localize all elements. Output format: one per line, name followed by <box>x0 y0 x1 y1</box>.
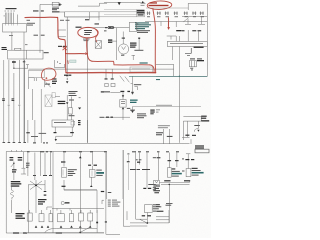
label text under red wire <box>27 20 36 26</box>
connector dash <box>185 135 189 136</box>
connector row symbol 3 <box>165 12 169 16</box>
red curl around fuse link <box>150 65 154 73</box>
teal text block <box>130 100 138 104</box>
wire down from AC box <box>187 121 189 137</box>
arrow under red junction <box>66 74 68 76</box>
S206 dash <box>101 191 104 192</box>
needle sweep curve <box>45 228 60 232</box>
relay2 labels <box>172 168 182 176</box>
fuse box component <box>190 61 197 67</box>
bottom bus line 1 <box>59 228 97 230</box>
battery plates <box>153 186 160 193</box>
dashes under <box>44 191 47 196</box>
wire rows mid-bottom verticals <box>27 153 29 177</box>
wire vertical midright b <box>168 129 170 144</box>
wire right in cluster <box>21 152 26 174</box>
mid bottom wires right of cluster <box>63 153 65 167</box>
bold segment on bus <box>56 232 62 234</box>
switch wire w diagonal <box>11 162 14 170</box>
main vertical wire center <box>116 28 118 60</box>
starter motor body <box>45 95 52 107</box>
EEC inline connector box <box>167 41 207 46</box>
connector dashes x92 <box>88 165 97 166</box>
wire coil T <box>132 38 140 60</box>
label R wire <box>18 105 21 106</box>
bottom bus line 2 <box>26 232 104 234</box>
wire top step <box>78 3 107 6</box>
label under relay circle <box>45 84 50 85</box>
lamp module wide box <box>52 120 74 127</box>
arrow head wire down <box>131 90 134 94</box>
label W wire <box>11 98 14 101</box>
wire 176.9 <box>176 153 178 168</box>
wire horizontal to relay <box>14 67 28 69</box>
node on teal <box>179 76 180 77</box>
dark connector blob <box>150 110 154 115</box>
relay1 internal <box>62 170 64 176</box>
labels mid bottom row <box>33 175 52 176</box>
dark dashes left <box>106 117 113 118</box>
wire below EEC box a <box>172 47 174 61</box>
label S-circle <box>65 202 70 203</box>
wire x123 bottom corner <box>123 150 130 226</box>
junction diamond on bus <box>118 2 121 5</box>
label 30A fuse <box>33 10 44 11</box>
wire horizontal <box>110 91 120 93</box>
labels y169 row <box>130 169 150 170</box>
red arrowhead <box>85 52 88 55</box>
red branch arrow to relay <box>66 53 85 55</box>
label under red main line <box>0 0 1 1</box>
ignition switch column stack <box>69 91 78 101</box>
teal tag box <box>70 60 76 63</box>
relay block dark text <box>137 10 145 16</box>
wire short with arrow <box>131 107 134 113</box>
wire to fuse link top <box>40 3 62 5</box>
wire y190 <box>64 180 97 213</box>
relay box right bottom <box>195 149 209 153</box>
wire x67 vertical <box>66 17 68 74</box>
starter wire right <box>40 89 42 143</box>
label under arrow <box>64 75 71 76</box>
red down to coil line <box>65 54 67 73</box>
label wire end tags <box>3 142 27 143</box>
wire into distributor <box>112 40 116 42</box>
label splice text <box>134 84 142 85</box>
fuel pump relay box <box>89 170 95 178</box>
starter relay contact stub <box>36 78 38 81</box>
label right tag <box>101 91 104 92</box>
ground bus node <box>146 222 148 224</box>
module pin ticks <box>137 24 139 30</box>
ignition switch connector comb <box>5 13 17 24</box>
wire down from X <box>35 190 37 213</box>
instrument cluster big box <box>6 152 106 234</box>
EEC module label text <box>135 22 151 29</box>
relay component 2 <box>167 168 171 178</box>
left harness wire 1 <box>3 60 5 143</box>
wire 169 <box>168 153 170 168</box>
label box top <box>201 120 209 121</box>
starter relay feed wire <box>13 61 15 69</box>
wire down from switch area <box>176 36 179 41</box>
component box mid <box>120 100 126 108</box>
wire long vertical center-left <box>87 40 89 143</box>
label in box <box>121 101 125 104</box>
stub wire a <box>160 22 162 27</box>
label rows mid right <box>158 125 170 128</box>
left harness wire 2 <box>8 60 10 143</box>
bold marks <box>12 169 17 172</box>
wire right section vertical <box>173 69 175 76</box>
wire w arrow down <box>66 95 68 102</box>
label BK wire <box>2 98 5 101</box>
red curl right of TFI <box>96 30 98 43</box>
label connector C149 <box>2 47 8 50</box>
node junction <box>13 68 14 69</box>
module pin wire 1 <box>88 12 90 20</box>
wire horizontal upper <box>167 36 177 40</box>
wire horizontal mid right <box>133 106 202 108</box>
ignition module box <box>129 22 136 31</box>
splice stub S208 <box>131 76 133 90</box>
arrow end of bus <box>142 1 145 3</box>
connector row symbol 2 <box>157 12 161 16</box>
label inside connector box <box>170 42 203 45</box>
dark dashes on module wire <box>105 27 114 28</box>
EEC sub box top right <box>188 3 207 76</box>
starter wire mid <box>34 120 36 143</box>
gray box left <box>52 93 55 98</box>
connector row symbol 1 <box>147 12 151 16</box>
starter cable box bottom <box>145 205 153 213</box>
label S201 splice text <box>58 46 67 47</box>
wire into EEC a <box>187 30 189 41</box>
label connector C <box>108 39 112 43</box>
red highlight: drop at ignition feed <box>58 17 66 53</box>
wire into module <box>85 27 129 29</box>
switch diagonal <box>183 18 188 22</box>
bus wire horizontal <box>29 68 174 70</box>
label ignition switch text <box>4 8 17 16</box>
label x single <box>127 153 129 154</box>
label 3 rows <box>38 199 47 205</box>
bottom line segment <box>182 137 191 144</box>
marks in box <box>54 121 75 125</box>
faint labels right <box>156 105 172 113</box>
wire continue <box>13 173 15 180</box>
ignition sw stub wires under bus <box>106 69 112 78</box>
red wire from TFI down to bus <box>87 39 92 62</box>
connector marks <box>120 91 130 92</box>
small component on junction block <box>15 48 21 50</box>
label small left of center <box>79 96 81 99</box>
label row above EEC box <box>176 30 201 31</box>
label right of box <box>127 108 131 109</box>
AC demand box <box>183 117 201 138</box>
arrow below box <box>122 107 124 109</box>
center verticals bottom <box>105 153 107 200</box>
fp relay internal <box>91 171 93 177</box>
battery label <box>164 180 190 181</box>
inline connector dashes <box>190 58 202 59</box>
red ellipse around starter relay <box>41 68 56 80</box>
end of long horizontal <box>130 143 190 145</box>
gauge needle X junction <box>28 180 45 190</box>
teal mark <box>156 79 160 80</box>
S208 circle splice <box>61 201 68 204</box>
label text right of block <box>44 52 49 53</box>
arrows below boxes <box>35 226 92 228</box>
label TFI text inside circle <box>84 30 92 35</box>
dashes under cable box <box>142 215 151 216</box>
red arrowhead branch <box>167 27 170 30</box>
wire to module box <box>60 12 100 17</box>
junction block box <box>8 50 43 59</box>
label view A rows <box>52 78 57 84</box>
ground arrow symbol <box>78 108 81 110</box>
bus line under connectors <box>145 21 207 23</box>
splice bracket box <box>55 60 65 68</box>
red branch vertical short <box>167 18 169 29</box>
label distributor <box>121 55 124 56</box>
wire stub tick <box>26 65 29 69</box>
wire into EEC b <box>197 30 199 41</box>
label block left mid right <box>156 132 163 135</box>
label left <box>130 110 135 111</box>
EEC bottom border <box>156 75 207 77</box>
relay component 3 <box>186 169 191 177</box>
left harness wire 4 <box>19 60 21 143</box>
red vertical from EEC ellipse <box>153 9 156 73</box>
box corner right <box>102 200 104 204</box>
relay component 1 <box>62 168 67 178</box>
wire x105 bottom corner <box>106 153 120 235</box>
label text left of module <box>104 26 114 31</box>
wire below EEC box b <box>178 47 180 143</box>
EEC top border line <box>146 7 188 9</box>
red mark at relay <box>46 77 48 79</box>
bold dash pair near 147 <box>143 188 151 189</box>
diagonal into node <box>140 219 148 223</box>
top bus wire <box>104 1 145 3</box>
line under switch row <box>182 15 207 17</box>
label two-row bold mid <box>58 101 66 104</box>
small boxes under stubs <box>105 83 108 86</box>
labels row under cluster <box>26 163 30 168</box>
relay1 legend <box>68 169 77 176</box>
fusible link box <box>130 67 153 72</box>
distributor feed wire <box>122 32 124 44</box>
red scribble at splice <box>63 47 68 51</box>
teal bus wire <box>129 75 207 77</box>
label right of fuse <box>197 60 204 61</box>
capacitor symbol <box>185 48 192 55</box>
label under column box <box>69 115 75 116</box>
red main coil bus <box>66 72 156 74</box>
wire label row center <box>104 91 110 92</box>
fuse link wire vertical <box>39 4 41 52</box>
fp relay labels <box>96 170 104 176</box>
labels above bottom section <box>27 151 179 152</box>
solenoid connector box <box>52 2 59 6</box>
label between <box>167 136 173 137</box>
labels right of cable box <box>153 204 164 212</box>
label wire 32 <box>26 132 30 133</box>
label in fusible link box <box>132 68 150 71</box>
relay block box <box>135 10 137 17</box>
label faint rows left of ellipse <box>141 3 146 6</box>
switch diagonal contacts <box>120 76 130 83</box>
label 3rows bottom left <box>11 181 21 187</box>
label splice <box>25 43 28 46</box>
T cap symbol b <box>198 17 205 25</box>
wire left in cluster <box>28 185 30 233</box>
labels bottom left of battery <box>156 204 171 207</box>
left harness wire 5 <box>24 60 26 143</box>
battery junction node <box>169 184 171 186</box>
connector row symbol 4 <box>174 12 178 16</box>
label below <box>134 50 143 51</box>
label left of relay3 <box>182 171 185 172</box>
label bottom tag <box>100 117 105 118</box>
bottom section top line <box>52 209 104 211</box>
connector dashes under <box>54 132 74 133</box>
red highlight ellipse around label <box>147 1 172 10</box>
label text block bottom <box>16 213 26 219</box>
label teal above link <box>140 62 148 63</box>
T cap symbol a <box>185 19 191 24</box>
label 561 wire <box>12 61 25 63</box>
column connector box <box>68 108 72 114</box>
verticals right bottom <box>136 153 148 220</box>
wire right of X <box>44 185 46 191</box>
label pin 1 <box>85 19 89 20</box>
relay text block right <box>195 145 204 148</box>
wires above boxes <box>30 210 90 214</box>
connector row symbol 5 <box>184 12 188 16</box>
dots in bracket <box>57 62 61 65</box>
stub wire b <box>168 22 170 27</box>
wire x80 <box>79 153 81 214</box>
distributor body <box>119 44 129 54</box>
relay3 labels <box>192 168 204 176</box>
stub wire c <box>175 22 177 28</box>
label module pins right <box>137 30 150 33</box>
red ellipse around TFI module <box>78 27 98 37</box>
dark mark on x97 <box>96 222 98 224</box>
wire x87 end <box>87 120 89 143</box>
connector row symbol 7 <box>200 12 204 16</box>
label solenoid text <box>52 8 60 13</box>
tick <box>55 95 60 97</box>
marks under fuse <box>190 68 193 71</box>
junction dot bottom <box>79 232 81 234</box>
cluster connector ticks <box>12 150 22 152</box>
coil X box <box>95 41 101 49</box>
box right marks <box>78 120 81 125</box>
label right edge <box>153 157 156 158</box>
label small <box>194 125 200 126</box>
wire vertical midright a <box>163 129 165 144</box>
label on ground wire <box>166 203 173 204</box>
connector dashes <box>105 78 114 79</box>
wire 158 <box>158 153 160 181</box>
starter wire left 2 <box>31 89 33 120</box>
ground box right corner <box>156 210 169 223</box>
label left of TFI wire <box>76 27 82 28</box>
diagonal needle 2 <box>81 227 90 232</box>
labels under connectors <box>147 15 204 18</box>
small bracket right <box>126 211 128 220</box>
bottom edge dashes <box>13 232 27 233</box>
wire from switch pin 1 <box>11 32 13 50</box>
starter wire left 1 <box>27 120 29 143</box>
thermistor squiggle <box>10 187 13 200</box>
wire cable box down <box>146 213 148 224</box>
diode hook <box>194 121 198 132</box>
wire stub <box>71 133 73 137</box>
starter motor relay box <box>29 70 51 89</box>
label pin 2 <box>95 23 100 24</box>
dashes pair <box>192 135 196 136</box>
connector row symbol 6 <box>192 12 196 16</box>
battery ground wire <box>168 184 170 223</box>
small box corner <box>47 207 52 210</box>
connector tick on feed <box>122 38 125 39</box>
left harness wire 3 <box>13 73 15 143</box>
label under TFI <box>83 39 90 42</box>
label wire text mid <box>31 133 46 137</box>
label right of AC box <box>201 116 207 119</box>
dashed continuation arrow <box>66 78 68 83</box>
long horizontal left part <box>56 143 130 145</box>
label tags above cluster <box>33 142 48 143</box>
red highlight: main feed horizontal top-left <box>25 16 58 18</box>
arrow under x91 <box>90 185 93 187</box>
connector tick upper <box>138 38 140 39</box>
small box above S201 <box>58 30 66 37</box>
junction arrow on x80 <box>79 156 82 158</box>
red upper bus segment <box>92 61 150 65</box>
wire x91 <box>90 177 92 185</box>
label fuse wire <box>34 35 45 36</box>
ignition switch body box <box>3 24 27 33</box>
wires box bottom right of cluster <box>80 221 90 232</box>
column wire <box>71 97 73 121</box>
horizontal wire upper mid <box>156 64 174 69</box>
legend text rows <box>108 200 121 207</box>
red stub near teal tag <box>67 60 70 64</box>
module bus box <box>65 12 145 17</box>
wire horizontal y117 <box>104 116 130 118</box>
label Y wire <box>8 105 11 106</box>
wire x92 <box>92 153 94 170</box>
label under EEC box <box>194 47 204 48</box>
dash on x105 <box>105 221 107 222</box>
label rows mid <box>137 113 147 118</box>
labels right mid rows <box>148 184 156 190</box>
label right of ign switch circle <box>130 43 137 48</box>
splice box small <box>134 87 137 90</box>
label pins in cluster <box>10 157 23 161</box>
battery top wire <box>157 182 190 186</box>
label center text <box>60 19 70 22</box>
EEC harness connector ellipse area : red circled label <box>149 2 169 6</box>
label small <box>108 192 112 193</box>
wire x97 <box>96 210 98 232</box>
wire down with arrows <box>122 92 124 99</box>
